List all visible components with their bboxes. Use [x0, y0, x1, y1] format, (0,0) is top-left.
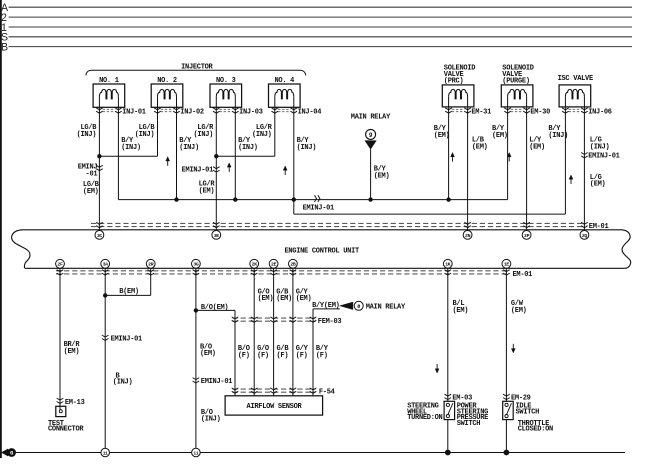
svg-text:(EM): (EM) — [83, 188, 99, 196]
svg-text:(EM): (EM) — [492, 132, 508, 140]
svg-text:INJECTOR: INJECTOR — [181, 63, 213, 71]
svg-text:(EM): (EM) — [258, 295, 274, 303]
svg-text:EM-13: EM-13 — [65, 399, 85, 407]
svg-text:(INJ): (INJ) — [77, 131, 97, 139]
svg-text:(INJ): (INJ) — [135, 131, 155, 139]
svg-text:(EM): (EM) — [199, 187, 215, 195]
svg-text:1K: 1K — [445, 262, 451, 268]
svg-text:(F): (F) — [238, 352, 250, 360]
svg-text:NO. 4: NO. 4 — [274, 77, 294, 85]
svg-text:CONNECTOR: CONNECTOR — [48, 426, 84, 434]
svg-text:FEM-03: FEM-03 — [318, 318, 342, 326]
svg-text:(F): (F) — [277, 352, 289, 360]
svg-text:(F): (F) — [296, 352, 308, 360]
svg-text:(INJ): (INJ) — [238, 144, 258, 152]
svg-text:(INJ): (INJ) — [179, 144, 199, 152]
svg-text:(EM): (EM) — [276, 295, 292, 303]
svg-text:2P: 2P — [524, 233, 530, 239]
svg-text:B(EM): B(EM) — [119, 288, 139, 296]
svg-text:(INJ): (INJ) — [201, 416, 221, 424]
svg-text:EM-01: EM-01 — [513, 271, 533, 279]
svg-text:(INJ): (INJ) — [193, 131, 213, 139]
svg-text:TURNED:ON: TURNED:ON — [407, 414, 442, 422]
svg-text:(INJ): (INJ) — [297, 144, 317, 152]
svg-text:2K: 2K — [252, 262, 258, 268]
svg-text:(PRC): (PRC) — [444, 78, 464, 86]
svg-text:INJ-02: INJ-02 — [180, 109, 204, 117]
svg-text:3E: 3E — [214, 233, 220, 239]
svg-text:MAIN RELAY: MAIN RELAY — [366, 304, 406, 312]
svg-text:(INJ): (INJ) — [590, 143, 610, 151]
svg-text:G: G — [10, 451, 13, 457]
svg-text:(EM): (EM) — [511, 307, 527, 315]
svg-text:EM-30: EM-30 — [530, 109, 550, 117]
svg-text:ENGINE CONTROL UNIT: ENGINE CONTROL UNIT — [284, 247, 359, 255]
svg-text:EM-01: EM-01 — [589, 223, 609, 231]
svg-text:3A: 3A — [103, 262, 109, 268]
svg-text:SWITCH: SWITCH — [516, 408, 540, 416]
svg-text:(EM): (EM) — [374, 173, 390, 181]
svg-text:EMINJ-01: EMINJ-01 — [201, 378, 232, 386]
svg-text:EMINJ-01: EMINJ-01 — [182, 167, 213, 175]
svg-text:B: B — [1, 42, 8, 54]
svg-text:NO. 2: NO. 2 — [157, 77, 177, 85]
svg-text:SWITCH: SWITCH — [457, 420, 481, 428]
svg-text:3G: 3G — [193, 262, 199, 268]
svg-text:B/O(EM): B/O(EM) — [201, 304, 229, 312]
svg-text:(F): (F) — [257, 352, 269, 360]
svg-text:2E: 2E — [271, 262, 277, 268]
svg-text:ISC VALVE: ISC VALVE — [558, 75, 593, 83]
svg-text:INJ-01: INJ-01 — [122, 109, 146, 117]
svg-text:(EM): (EM) — [296, 295, 312, 303]
svg-text:(PURGE): (PURGE) — [502, 78, 530, 86]
svg-text:(EM): (EM) — [529, 143, 545, 151]
svg-text:2F: 2F — [57, 262, 63, 268]
svg-text:INJ-04: INJ-04 — [298, 109, 322, 117]
svg-text:2B: 2B — [290, 262, 296, 268]
svg-text:2N: 2N — [465, 233, 471, 239]
svg-text:(EM): (EM) — [472, 143, 488, 151]
svg-text:(INJ): (INJ) — [548, 132, 568, 140]
svg-text:2Q: 2Q — [582, 233, 588, 239]
svg-text:(INJ): (INJ) — [121, 144, 141, 152]
svg-text:(EM): (EM) — [434, 132, 450, 140]
svg-text:INJ-03: INJ-03 — [239, 109, 263, 117]
svg-text:EM-29: EM-29 — [511, 394, 531, 402]
svg-text:EM-03: EM-03 — [452, 394, 472, 402]
svg-text:2R: 2R — [148, 262, 154, 268]
svg-text:(EM): (EM) — [64, 348, 80, 356]
svg-text:EMINJ-01: EMINJ-01 — [588, 153, 619, 161]
svg-text:(INJ): (INJ) — [252, 131, 272, 139]
svg-text:EM-31: EM-31 — [471, 109, 491, 117]
svg-text:INJ-06: INJ-06 — [588, 109, 612, 117]
svg-text:EMINJ-01: EMINJ-01 — [111, 336, 142, 344]
svg-text:1E: 1E — [504, 262, 510, 268]
svg-text:B/Y(EM): B/Y(EM) — [312, 302, 340, 310]
svg-text:11: 11 — [103, 450, 108, 456]
svg-text:11: 11 — [193, 450, 198, 456]
svg-text:-01: -01 — [86, 171, 98, 179]
svg-text:(EM): (EM) — [590, 181, 606, 189]
svg-text:NO. 3: NO. 3 — [216, 77, 236, 85]
svg-text:AIRFLOW SENSOR: AIRFLOW SENSOR — [247, 403, 303, 411]
svg-text:(EM): (EM) — [200, 350, 216, 358]
svg-text:(INJ): (INJ) — [113, 379, 133, 387]
svg-text:CLOSED:ON: CLOSED:ON — [518, 426, 553, 434]
svg-text:MAIN RELAY: MAIN RELAY — [351, 114, 391, 122]
svg-text:(EM): (EM) — [453, 307, 469, 315]
svg-text:(F): (F) — [316, 352, 328, 360]
svg-text:3C: 3C — [97, 233, 103, 239]
svg-text:NO. 1: NO. 1 — [99, 77, 119, 85]
svg-text:EMINJ-01: EMINJ-01 — [303, 204, 334, 212]
